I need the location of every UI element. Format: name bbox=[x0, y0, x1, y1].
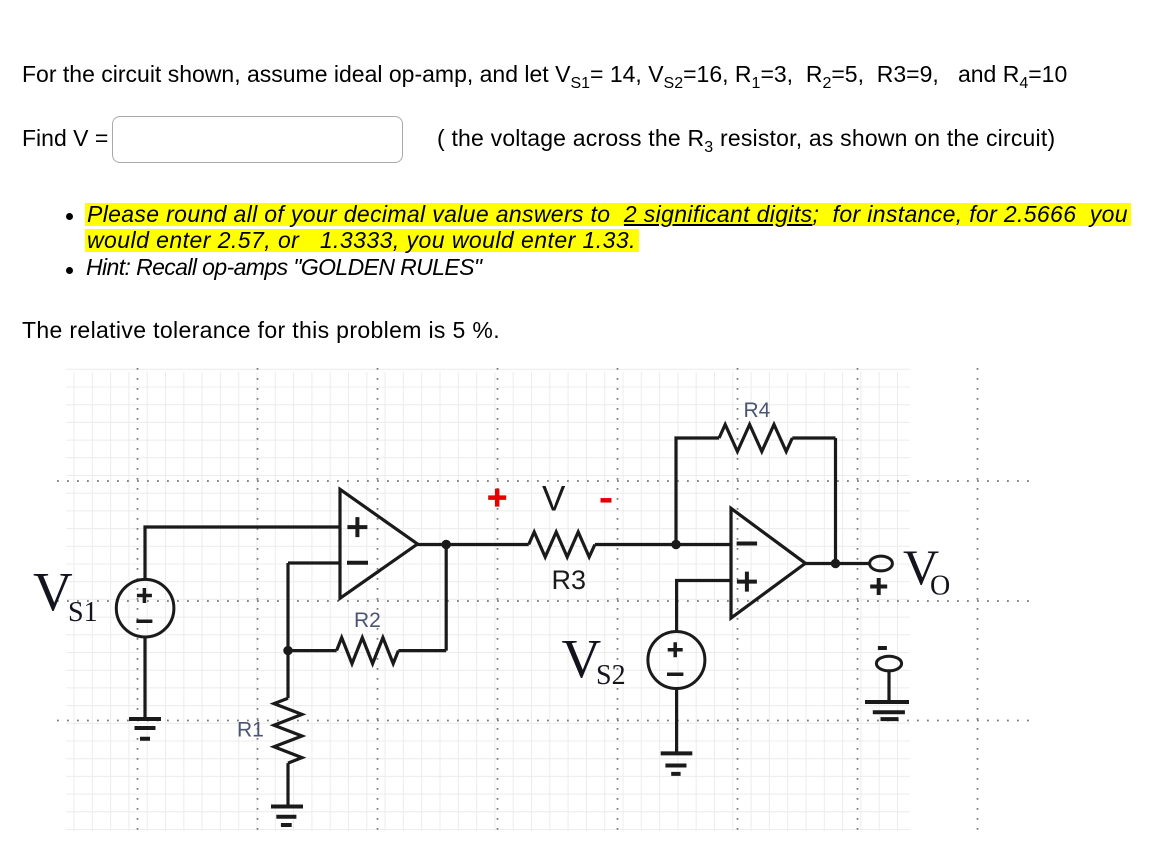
svg-text:S1: S1 bbox=[68, 597, 98, 628]
svg-text:S2: S2 bbox=[596, 660, 626, 691]
svg-text:R1: R1 bbox=[237, 718, 264, 741]
svg-text:V: V bbox=[33, 561, 73, 622]
svg-text:R4: R4 bbox=[744, 399, 771, 422]
svg-text:O: O bbox=[930, 571, 950, 602]
svg-text:V: V bbox=[542, 479, 566, 518]
svg-text:R2: R2 bbox=[354, 609, 381, 632]
svg-text:R3: R3 bbox=[552, 565, 587, 595]
